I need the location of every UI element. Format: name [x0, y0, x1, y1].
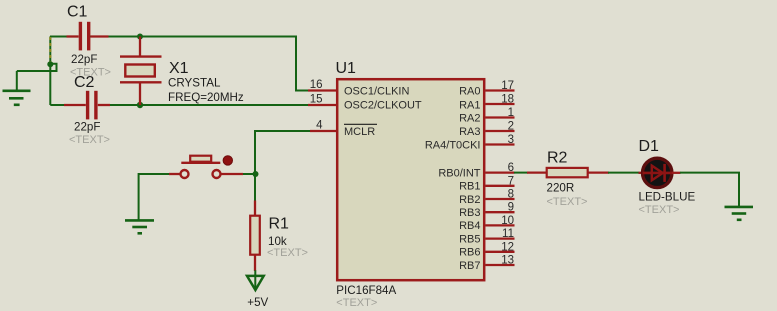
- svg-text:RA3: RA3: [459, 126, 480, 138]
- svg-text:3: 3: [508, 134, 514, 146]
- svg-text:+5V: +5V: [247, 296, 268, 309]
- svg-text:10: 10: [501, 215, 514, 227]
- svg-text:MCLR: MCLR: [344, 126, 375, 138]
- svg-text:<TEXT>: <TEXT>: [267, 247, 308, 259]
- pin 9 stub RB3: [486, 211, 515, 213]
- svg-text:18: 18: [501, 94, 514, 106]
- svg-text:<TEXT>: <TEXT>: [69, 134, 110, 146]
- svg-text:RB3: RB3: [459, 207, 480, 219]
- svg-text:2: 2: [508, 121, 514, 133]
- svg-text:RB7: RB7: [459, 260, 480, 272]
- wire: C2 right to crystal junction and OSC2: [108, 104, 308, 106]
- pin 1 stub RA2: [486, 116, 515, 118]
- wire: top net from C1 corner to OSC1: [50, 36, 310, 91]
- svg-text:15: 15: [310, 94, 323, 106]
- svg-text:OSC1/CLKIN: OSC1/CLKIN: [344, 85, 409, 97]
- pin 17 stub RA0: [486, 89, 515, 91]
- wire: horizontal to left ground: [17, 70, 57, 72]
- node junction dot at button/R1: [253, 171, 259, 177]
- svg-text:9: 9: [508, 202, 514, 214]
- wire: dashed vertical (overlap) from C1 corner down to junction: [49, 37, 51, 64]
- pin 15 stub (OSC2/CLKOUT): [308, 104, 336, 106]
- ground (below button): [125, 220, 154, 233]
- svg-text:RB4: RB4: [459, 220, 480, 232]
- pushbutton component: [169, 156, 243, 178]
- svg-text:C2: C2: [74, 74, 95, 91]
- capacitor C1: [67, 22, 109, 51]
- svg-text:U1: U1: [336, 60, 357, 77]
- pin 11 stub RB5: [486, 237, 515, 239]
- svg-text:8: 8: [508, 189, 514, 201]
- svg-text:R2: R2: [547, 150, 568, 167]
- svg-text:22pF: 22pF: [74, 121, 100, 134]
- wire: button left to ground: [139, 173, 170, 220]
- power +5V arrow: [254, 270, 256, 288]
- pin 8 stub RB2: [486, 198, 515, 200]
- svg-text:OSC2/CLKOUT: OSC2/CLKOUT: [344, 99, 422, 111]
- svg-text:X1: X1: [169, 60, 189, 77]
- pin 2 stub RA3: [486, 130, 515, 132]
- svg-text:RB0/INT: RB0/INT: [438, 167, 480, 179]
- wire: MCLR net from pin 4: [255, 130, 310, 202]
- pin 16 stub (OSC1/CLKIN): [308, 89, 336, 91]
- svg-text:CRYSTAL: CRYSTAL: [168, 76, 221, 89]
- node: junction dot on bottom wire at crystal: [137, 102, 143, 108]
- wire: RB0 to R2: [514, 172, 528, 174]
- crystal X1: [120, 37, 162, 106]
- svg-text:RA0: RA0: [459, 85, 480, 97]
- svg-text:FREQ=20MHz: FREQ=20MHz: [168, 91, 244, 104]
- resistor R1: [250, 201, 260, 272]
- pin 3 stub RA4/T0CKI: [486, 143, 515, 145]
- svg-text:RA1: RA1: [459, 99, 480, 111]
- op chip U1 body: [337, 79, 484, 280]
- wire: vertical from node A down to C2: [50, 64, 65, 105]
- node: junction dot on top wire at crystal: [137, 34, 143, 40]
- svg-text:PIC16F84A: PIC16F84A: [336, 284, 396, 297]
- svg-text:<TEXT>: <TEXT>: [547, 196, 588, 208]
- svg-text:220R: 220R: [547, 182, 575, 195]
- svg-text:6: 6: [508, 162, 514, 174]
- svg-text:RB6: RB6: [459, 247, 480, 259]
- svg-text:22pF: 22pF: [71, 53, 97, 66]
- pin 7 stub RB1: [486, 185, 515, 187]
- capacitor C2: [64, 91, 110, 120]
- node A junction dot left: [47, 61, 53, 67]
- svg-text:16: 16: [310, 79, 323, 91]
- svg-text:1: 1: [508, 107, 514, 119]
- svg-text:<TEXT>: <TEXT>: [639, 204, 680, 216]
- ground (left of C1/C2): [3, 71, 31, 105]
- svg-text:C1: C1: [67, 4, 88, 21]
- wire: small loop at node A: [50, 64, 57, 71]
- svg-text:RB1: RB1: [459, 181, 480, 193]
- svg-text:<TEXT>: <TEXT>: [336, 297, 377, 309]
- svg-text:13: 13: [501, 255, 514, 267]
- pin 4 stub (MCLR): [310, 130, 336, 132]
- pin 18 stub RA1: [486, 103, 515, 105]
- resistor R2: [527, 168, 609, 177]
- svg-text:RB2: RB2: [459, 194, 480, 206]
- pin 6 stub RB0/INT: [486, 171, 515, 173]
- svg-text:D1: D1: [639, 138, 660, 155]
- svg-text:R1: R1: [269, 216, 290, 233]
- svg-text:4: 4: [316, 120, 323, 132]
- svg-text:12: 12: [501, 241, 514, 253]
- svg-text:7: 7: [508, 175, 514, 187]
- LED D1: [639, 158, 681, 187]
- svg-text:11: 11: [502, 228, 514, 240]
- wire: button right to MCLR net: [243, 173, 256, 175]
- wire: LED to right ground: [680, 172, 740, 206]
- pin 13 stub RB7: [486, 264, 515, 266]
- ground (right of LED): [725, 207, 754, 220]
- pin 10 stub RB4: [486, 224, 515, 226]
- svg-text:RA2: RA2: [459, 112, 480, 124]
- svg-text:RB5: RB5: [459, 233, 480, 245]
- wire: R2 to LED: [608, 172, 640, 174]
- svg-text:RA4/T0CKI: RA4/T0CKI: [425, 139, 481, 151]
- pin 12 stub RB6: [486, 251, 515, 253]
- svg-text:17: 17: [501, 80, 514, 92]
- svg-text:LED-BLUE: LED-BLUE: [639, 190, 696, 203]
